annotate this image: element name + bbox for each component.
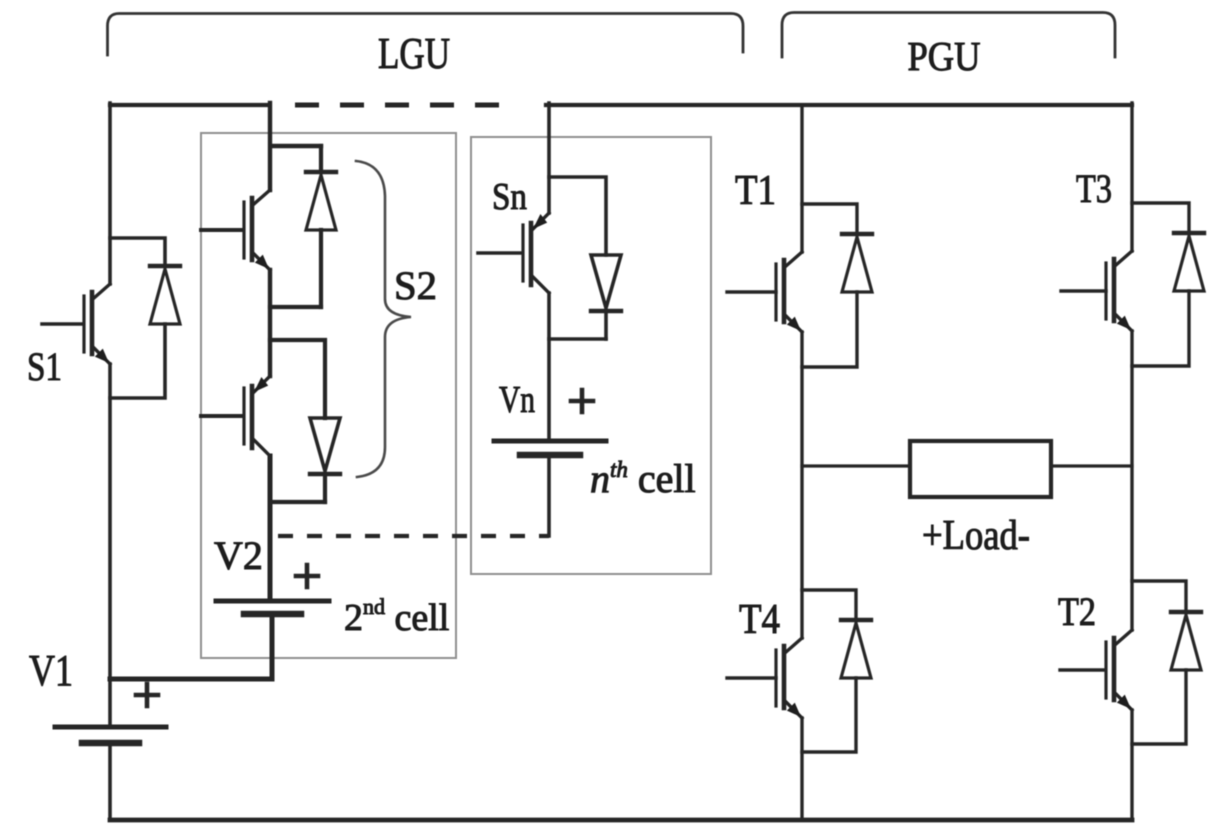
wire: T2 diode branch bottom [1132, 670, 1186, 744]
wire: T2 emitter to bottom rail [1130, 710, 1133, 820]
svg-text:T4: T4 [739, 597, 780, 643]
svg-text:T1: T1 [735, 168, 776, 214]
wire: S2 upper emitter down through branch [268, 270, 272, 376]
wire: S2 lower emitter to battery [268, 456, 273, 601]
svg-text:2nd cell: 2nd cell [344, 594, 449, 639]
battery V1 positive plate [55, 725, 166, 730]
svg-text:PGU: PGU [908, 33, 981, 79]
svg-text:nth cell: nth cell [590, 456, 696, 501]
wire: S1 diode branch bottom [110, 324, 165, 398]
svg-text:T2: T2 [1058, 589, 1096, 634]
PGU bracket [782, 13, 1115, 58]
wire: bottom rail [110, 818, 1132, 823]
wire: load right lead [1051, 464, 1132, 467]
brace for S2 pair [356, 161, 411, 477]
wire: S2 upper diode bottom branch [270, 305, 321, 309]
wire: S2 emitter diode bottom branch [270, 500, 325, 504]
load resistor box [910, 441, 1051, 497]
wire: Sn branch from top rail [547, 103, 551, 213]
wire: T4 emitter to bottom rail [800, 718, 803, 820]
wire: top rail left solid segment [110, 103, 268, 107]
wire: S2 upper diode bottom lead [319, 230, 323, 307]
wire: Vn negative to dashed link [547, 455, 551, 536]
wire: T1 emitter down to T4 collector [800, 332, 803, 638]
battery V1 negative plate [82, 740, 139, 747]
wire: T3 diode branch top [1132, 203, 1189, 233]
wire: Sn diode bottom lead [604, 311, 608, 339]
wire: T2 diode branch top [1132, 581, 1186, 612]
diode of T4 [841, 620, 871, 678]
transistor T3 [1106, 251, 1132, 331]
wire: Sn emitter diode branch [549, 337, 606, 341]
wire S1 gate lead [42, 322, 83, 326]
svg-text:V2: V2 [214, 533, 263, 578]
wire: T1 diode branch top [802, 204, 857, 234]
wire: T2 gate lead [1060, 668, 1104, 671]
transistor S1 [84, 284, 110, 364]
svg-text:Vn: Vn [499, 379, 535, 421]
wire: S2 lower gate lead [201, 414, 243, 418]
transistor S2 upper IGBT [244, 190, 270, 270]
diode of T3 [1174, 233, 1204, 291]
plus sign of V1 [136, 684, 158, 706]
wire: V2 negative to V1 positive link [110, 614, 272, 679]
wire: T3 emitter down to T2 collector [1130, 331, 1133, 630]
diode of S2 upper [306, 172, 336, 230]
wire: T4 diode branch bottom [802, 678, 856, 752]
battery Vn positive plate [494, 439, 606, 444]
battery Vn negative plate [520, 452, 580, 459]
wire: S1 diode branch top [110, 238, 165, 266]
wire: load left lead [802, 464, 910, 467]
svg-text:S2: S2 [394, 263, 437, 308]
wire: T4 gate lead [727, 676, 776, 679]
svg-text:Sn: Sn [492, 176, 527, 218]
battery V2 positive plate [216, 599, 329, 604]
svg-text:T3: T3 [1076, 166, 1112, 211]
wire: T3 leg from top rail [1130, 103, 1133, 251]
dashed link between 2nd and nth cells [278, 534, 549, 538]
svg-text:V1: V1 [29, 646, 73, 695]
battery V2 negative plate [244, 611, 301, 618]
wire: S2 lower diode bottom lead [323, 474, 327, 502]
wire: T3 diode branch bottom [1132, 291, 1189, 366]
wire: T1 gate lead [727, 290, 776, 293]
diode of S2 lower [310, 418, 340, 474]
wire: Sn emitter to battery [547, 293, 551, 441]
plus sign of V2 [296, 565, 318, 587]
diode of S1 [150, 266, 180, 324]
S2 cell box [201, 133, 456, 658]
diode of T2 [1171, 612, 1201, 670]
transistor S2 lower IGBT [244, 376, 270, 456]
wire: S2 branch stub and collector link [270, 103, 321, 190]
wire: T4 diode branch top [802, 590, 856, 620]
plus sign of Vn [571, 390, 593, 412]
wire: S2 lower diode top branch [270, 340, 325, 418]
Sn cell box [471, 137, 711, 574]
diode of T1 [842, 234, 872, 292]
transistor T2 [1106, 630, 1132, 710]
transistor Sn [523, 213, 549, 293]
diode of Sn [591, 255, 621, 311]
wire: S2 upper diode top lead [319, 146, 323, 168]
svg-text:S1: S1 [27, 344, 62, 389]
wire: top rail dashed segment [295, 103, 500, 108]
wire: left rail lower (V1 to bottom rail) [108, 743, 112, 820]
wire: T1 leg from top rail [800, 105, 803, 252]
wire: left rail upper (top rail to S1 collector) [108, 103, 112, 284]
transistor T4 [776, 638, 802, 718]
wire: S2 upper gate lead [201, 228, 243, 232]
wire: T1 diode branch bottom [802, 292, 857, 367]
wire: Sn collector to diode [549, 177, 606, 255]
LGU bracket [108, 14, 744, 56]
wire: top rail right solid segment [546, 103, 1132, 107]
svg-text:+Load-: +Load- [922, 513, 1030, 559]
wire: left rail middle (S1 emitter to V1) [108, 364, 112, 727]
wire: Sn gate lead [478, 251, 522, 255]
transistor T1 [776, 252, 802, 332]
wire: T3 gate lead [1061, 289, 1106, 292]
svg-text:LGU: LGU [378, 29, 450, 78]
